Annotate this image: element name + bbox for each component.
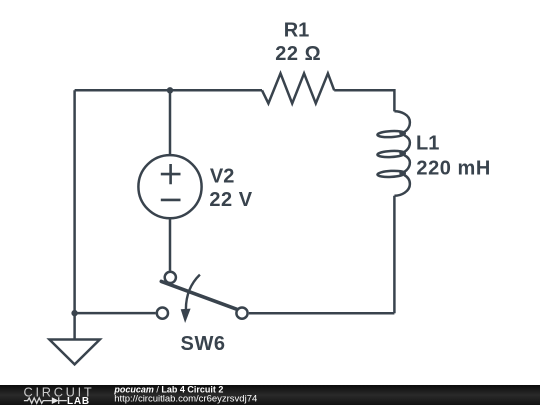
- svg-text:220 mH: 220 mH: [416, 157, 490, 179]
- wire right top lead: [393, 89, 396, 111]
- svg-text:V2: V2: [210, 165, 234, 187]
- svg-text:R1: R1: [284, 20, 310, 42]
- wire left vertical: [73, 90, 76, 313]
- wire V2 top lead: [169, 90, 172, 154]
- svg-text:L1: L1: [416, 132, 439, 154]
- logo schematic line (resistor + diode): [24, 397, 67, 404]
- svg-text:22 V: 22 V: [209, 189, 252, 211]
- switch blade: [161, 281, 236, 309]
- inductor L1 loop 1: [377, 130, 405, 137]
- wire top (resistor to right corner): [334, 89, 394, 92]
- inductor L1 loop 3: [377, 170, 405, 177]
- footer bar: [0, 385, 540, 405]
- wire top (left corner to resistor): [75, 89, 262, 92]
- voltage source V2: [138, 155, 201, 218]
- wire right bottom lead: [393, 196, 396, 313]
- switch SW6: [157, 272, 248, 323]
- ground stub wire: [73, 313, 76, 339]
- ground: [49, 340, 99, 365]
- wire bottom left (ground junction to switch): [75, 312, 156, 315]
- switch actuation arrow: [186, 275, 200, 309]
- svg-text:SW6: SW6: [181, 333, 226, 355]
- node junction dot bottom (ground): [71, 310, 77, 316]
- svg-text:LAB: LAB: [67, 396, 90, 405]
- node junction dot top (V2 to top wire): [167, 87, 173, 93]
- inductor L1 loop 2: [377, 150, 405, 157]
- switch terminal right: [236, 308, 247, 319]
- wire V2 bottom lead: [169, 218, 172, 270]
- svg-text:http://circuitlab.com/cr6eyzrs: http://circuitlab.com/cr6eyzrsvdj74: [114, 393, 257, 404]
- wire bottom (right corner to switch): [249, 312, 395, 315]
- inductor L1 coil connector arcs: [394, 111, 410, 133]
- logo diode triangle: [52, 397, 59, 404]
- switch terminal top: [165, 272, 176, 283]
- svg-text:22 Ω: 22 Ω: [275, 43, 321, 65]
- switch terminal left: [157, 308, 168, 319]
- resistor R1: [262, 73, 334, 103]
